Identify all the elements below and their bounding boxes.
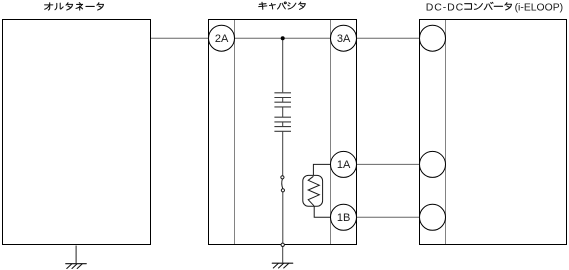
svg-text:DC-DC: DC-DC <box>426 1 464 13</box>
svg-text:3A: 3A <box>337 33 351 45</box>
svg-text:(i-ELOOP): (i-ELOOP) <box>515 2 564 13</box>
svg-text:2A: 2A <box>215 33 229 45</box>
svg-text:1B: 1B <box>337 212 350 224</box>
svg-text:1A: 1A <box>337 159 351 171</box>
